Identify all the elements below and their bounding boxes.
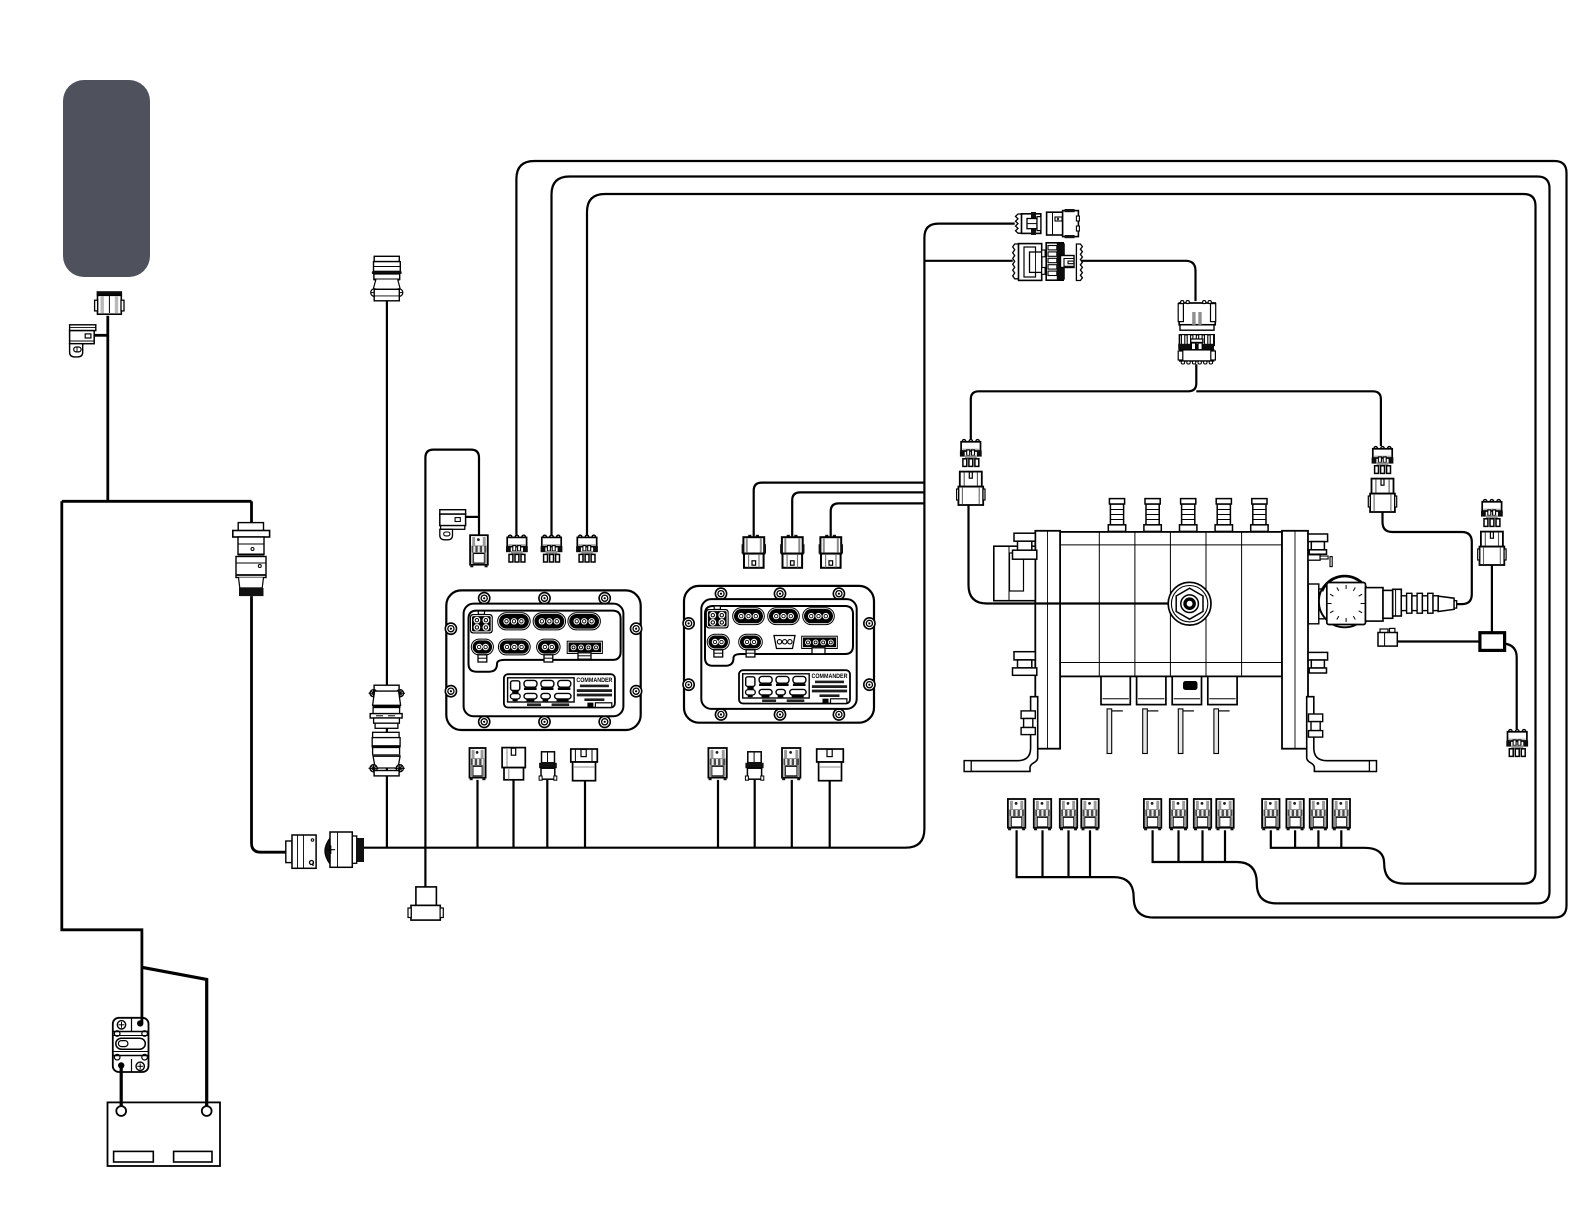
U2 output connector F2 [745, 752, 763, 780]
U2 label plate [739, 670, 850, 703]
manifold left end plate [1035, 531, 1060, 749]
module U1 COMMANDER master enclosure [446, 590, 640, 730]
group1 connector 4 [1081, 799, 1098, 830]
wire: breaker to battery negative [120, 1066, 123, 1107]
U2 port J4 (3-pin) [803, 608, 835, 625]
wire: main bus to junction riser [364, 224, 1015, 848]
U1 port J4 (3-pin) [568, 613, 601, 630]
relay K1 [440, 510, 466, 540]
wire: harness split bar [62, 500, 252, 503]
wire: bulkhead receptacle drop [386, 301, 388, 848]
wire: U2 J4 lead [831, 503, 925, 536]
battery [108, 1102, 221, 1166]
pressure sensor connector (right of manifold) [1368, 447, 1396, 512]
group3 connector 4 [1333, 799, 1350, 830]
U2 output connector F4 [817, 749, 844, 781]
wire: U1 J3 lead (loop 2) [552, 177, 1550, 904]
diagnostic plug (below bus) [408, 887, 443, 920]
group1 connector 1 [1008, 799, 1025, 830]
remote transmitter body [63, 80, 150, 277]
module U1 COMMANDER master inner cover [464, 604, 624, 717]
wire: U1 output drops [476, 780, 478, 848]
wire: return sensor to splice [1491, 565, 1493, 632]
wire: splice to tank connector [1504, 644, 1517, 730]
wire: branch to bulkhead connector [250, 501, 253, 522]
power connector pair (top right) [1016, 212, 1041, 235]
tank port connector [1506, 730, 1528, 757]
U1 output connector E3 [539, 752, 557, 780]
wire: remote antenna drop [106, 316, 109, 502]
inline connector pair (lower left) B [325, 832, 364, 867]
group1 connector 2 [1034, 799, 1051, 830]
U2 input connector D2 [780, 535, 804, 568]
U1 port J7 (2-pin) [537, 639, 561, 662]
manifold bolt (upper right) [1308, 534, 1328, 554]
wire: antenna bracket link [94, 334, 108, 337]
wire: bulkhead to harness plug [252, 596, 286, 852]
U1 valve connector C2 [506, 535, 528, 562]
U1 connector well outline [469, 611, 621, 672]
wire: relay feed [466, 516, 479, 518]
U1 valve connector C3 [541, 535, 563, 562]
wire: U2 J2 lead [754, 483, 925, 537]
wire: U1 J2 lead (loop 1) [516, 161, 1566, 918]
group2 connector 4 [1216, 799, 1233, 830]
gauge port hex plug (centre) [1168, 582, 1211, 625]
module U2 COMMANDER slave mounting screws [683, 588, 875, 720]
U2 connector well outline [705, 606, 853, 666]
wire: branch to battery positive [142, 967, 207, 1106]
wire: branch to power circuit [62, 501, 142, 1023]
U2 input connector D1 [742, 535, 766, 568]
U1 port J8 (4-pin strip) [567, 641, 602, 659]
wire: left pressure sensor to gauge port [969, 505, 1169, 604]
mounting bracket (left) [964, 697, 1037, 772]
U2 port J3 (3-pin) [768, 608, 800, 625]
U1 label plate [504, 674, 615, 707]
group3 connector 1 [1262, 799, 1279, 830]
remote antenna connector [95, 291, 124, 314]
group2 connector 3 [1194, 799, 1211, 830]
inline 4-way connector pair [1178, 301, 1216, 331]
transducer connector [1378, 628, 1397, 646]
U2 port J1 (4-pin square) [706, 606, 729, 629]
U1 valve connector C4 [576, 535, 598, 562]
pressure gauge with hose [1308, 576, 1456, 628]
U1 port J1 (4-pin square) [470, 611, 493, 634]
bulkhead receptacle (top) [371, 256, 403, 301]
U1 harness connector C1 [470, 535, 488, 567]
group1 connector 3 [1060, 799, 1077, 830]
pressure sensor connector (left of manifold) [957, 440, 985, 505]
module U1 COMMANDER master mounting screws [445, 593, 641, 728]
splice block [1480, 633, 1505, 651]
svg-text:COMMANDER: COMMANDER [576, 677, 612, 684]
wire: junction riser to CAN pair [924, 260, 1012, 262]
U1 port J3 (3-pin) [533, 613, 566, 630]
U2 input connector D3 [819, 535, 843, 568]
manifold bleeder screw (right) [1308, 555, 1332, 567]
U1 output connector E1 [470, 748, 486, 780]
manifold port bolt (lower left) [1013, 652, 1037, 676]
U2 output connector F3 [782, 748, 800, 780]
group2 connector 2 [1170, 799, 1187, 830]
wire: relay loop [425, 450, 479, 848]
manifold right end plate [1282, 531, 1308, 749]
wire: U1 J4 lead (loop 3) [587, 194, 1536, 884]
solenoid stems [1107, 709, 1230, 754]
U2 port J5 (2-pin) [707, 634, 729, 657]
module U2 COMMANDER slave enclosure [684, 586, 874, 723]
U2 port J6 (2-pin) [739, 634, 763, 657]
wire: right sensor loop to hose end [1383, 508, 1472, 604]
U2 port J7 (3-pin wedge) [774, 636, 795, 649]
return sensor connector (far right) [1478, 500, 1506, 565]
U2 port J8 (4-pin strip) [802, 636, 838, 654]
manifold inlet fitting (upper left) [994, 533, 1037, 601]
wire: U2 J3 lead [792, 492, 924, 536]
wire: CAN pair to inline connector [1076, 261, 1195, 301]
wire: sensor tee right branch [1196, 391, 1381, 446]
inline harness connector pair (on receptacle drop) [369, 685, 405, 776]
manifold valve block body [1060, 532, 1282, 677]
wire: valve group 1 drops [1041, 830, 1043, 877]
wire: valve group 3 drops [1294, 830, 1296, 848]
solenoid coils SV1-SV4 [1101, 676, 1237, 704]
module U2 COMMANDER slave inner cover [701, 599, 856, 709]
inline connector pair (lower left) A [286, 835, 316, 868]
wire: U2 output drops [717, 780, 719, 848]
antenna mount bracket [70, 325, 96, 357]
group2 connector 1 [1144, 799, 1161, 830]
U2 port J2 (3-pin) [733, 608, 765, 625]
group3 connector 2 [1286, 799, 1303, 830]
mounting bracket (right) [1307, 697, 1377, 772]
manifold top ports P1-P5 [1108, 499, 1268, 532]
CAN connector pair (top right) [1013, 244, 1045, 281]
U1 port J6 (3-pin) [498, 639, 530, 655]
wire: transducer to splice [1397, 640, 1480, 642]
U2 output connector F1 [708, 748, 726, 780]
U1 output connector E2 [502, 748, 525, 780]
U1 port J2 (3-pin) [498, 613, 531, 630]
U1 output connector E4 [571, 749, 598, 781]
wire: inline connector to sensor tee [971, 364, 1197, 439]
circuit breaker CB1 [113, 1018, 149, 1072]
wire: valve group 2 drops [1177, 830, 1179, 862]
U1 port J5 (2-pin) [471, 639, 493, 662]
harness bulkhead connector (mid-left) [233, 523, 270, 597]
svg-text:COMMANDER: COMMANDER [812, 673, 848, 680]
group3 connector 3 [1310, 799, 1327, 830]
wire: drop to diagnostic plug [424, 848, 426, 887]
manifold bolt (lower right) [1308, 652, 1328, 673]
